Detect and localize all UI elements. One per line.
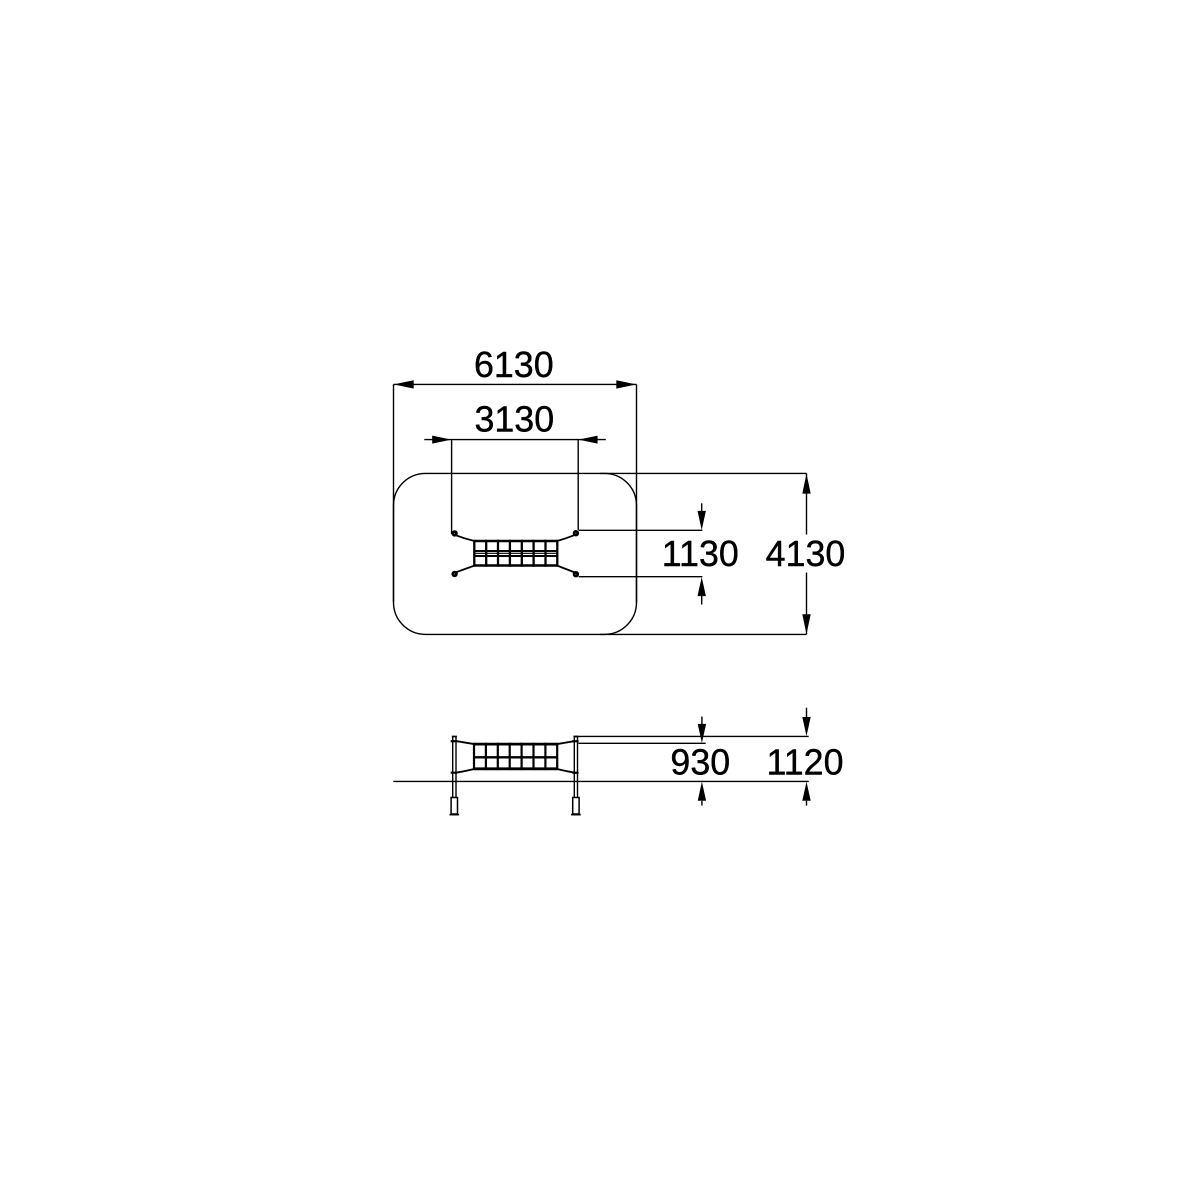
net bridge elevation: top rail [474, 743, 557, 746]
net bridge elevation: middle rope [474, 756, 557, 758]
bottom edge extension line to 4130 [600, 633, 807, 635]
left post ground sleeve [451, 798, 457, 815]
top edge extension line to 4130 [600, 472, 807, 474]
dim 1130 bottom arrow tail [701, 596, 703, 605]
dim 6130 dimension line [394, 383, 637, 385]
dim 3130 dimension line [424, 439, 606, 441]
right post top collar [572, 740, 578, 742]
anchor post bottom-left (plan) [453, 572, 457, 576]
net top extension line (930) [578, 742, 705, 744]
dim 3130 right extension line [577, 440, 579, 530]
dim 930 bottom arrow tail [701, 801, 703, 806]
dim 4130 dimension line upper segment [806, 473, 808, 534]
dim 6130 left arrowhead [394, 380, 414, 388]
net bridge elevation: vertical rungs [474, 743, 557, 770]
svg-text:1120: 1120 [767, 743, 844, 783]
net bridge plan: middle rope 2 [474, 552, 557, 554]
dim 3130 left extension line [451, 440, 453, 534]
right post [574, 737, 577, 798]
post top extension line (1120) [574, 735, 808, 737]
rope bottom-right (plan) [557, 566, 574, 573]
dim 930 top arrowhead (pointing down) [698, 724, 706, 743]
dim 1120 bottom arrow tail [806, 801, 808, 806]
dim 4130 top arrowhead [802, 474, 810, 494]
rope top-left (elevation) [457, 741, 474, 744]
left post cap [452, 736, 457, 738]
net bottom extension line (1130) [579, 576, 703, 578]
svg-text:3130: 3130 [474, 399, 554, 439]
net bridge plan: bottom rail [474, 564, 557, 566]
dim 1120 top arrow tail [806, 708, 808, 718]
dim 6130 right extension line [636, 384, 638, 602]
left post top collar [451, 740, 457, 742]
right post cap [573, 736, 578, 738]
rope top-left (plan) [456, 535, 475, 541]
dim 1130 top arrow tail [701, 503, 703, 512]
rope bottom-left (elevation) [457, 769, 474, 773]
right post ground sleeve [573, 798, 579, 815]
dim 4130 bottom arrowhead [802, 614, 810, 634]
svg-text:930: 930 [670, 743, 730, 783]
rope bottom-left (plan) [456, 566, 475, 573]
right post bottom collar [572, 772, 578, 774]
dim 1130 top arrowhead (pointing down) [698, 511, 706, 530]
dim 4130 dimension line lower segment [806, 573, 808, 635]
svg-text:6130: 6130 [474, 345, 554, 385]
net bridge plan: vertical rungs [474, 540, 557, 567]
net bridge plan: top rail [474, 540, 557, 542]
rope top-right (elevation) [557, 741, 574, 744]
dim 6130 right arrowhead [616, 380, 636, 388]
svg-text:4130: 4130 [766, 534, 846, 574]
anchor post top-left (plan) [453, 532, 457, 536]
right post base line [571, 814, 581, 816]
anchor post top-right (plan) [574, 531, 578, 535]
net bridge plan: middle rope 1 [474, 550, 557, 552]
net top extension line (1130) [578, 529, 702, 531]
dim 3130 right arrowhead (outside, pointing left) [578, 436, 597, 444]
dim 6130 left extension line [393, 384, 395, 601]
net bridge plan: middle rope 3 [474, 555, 557, 557]
anchor post bottom-right (plan) [574, 572, 578, 576]
rope top-right (plan) [557, 535, 574, 541]
ground line [393, 780, 808, 782]
left post [453, 737, 456, 798]
dim 1130 bottom arrowhead (pointing up) [698, 577, 706, 596]
svg-text:1130: 1130 [662, 534, 739, 574]
left post base line [450, 814, 460, 816]
net bridge elevation: bottom rail [474, 767, 557, 770]
dim 930 bottom arrowhead (pointing up) [698, 782, 706, 801]
rope bottom-right (elevation) [557, 769, 574, 773]
dim 3130 left arrowhead (outside, pointing right) [432, 436, 451, 444]
left post bottom collar [451, 772, 457, 774]
dim 1120 top arrowhead (pointing down) [802, 717, 810, 736]
dim 1120 bottom arrowhead (pointing up) [802, 782, 810, 801]
dim 930 top arrow tail [701, 717, 703, 725]
safety area outline (plan view rounded rectangle) [394, 473, 637, 634]
